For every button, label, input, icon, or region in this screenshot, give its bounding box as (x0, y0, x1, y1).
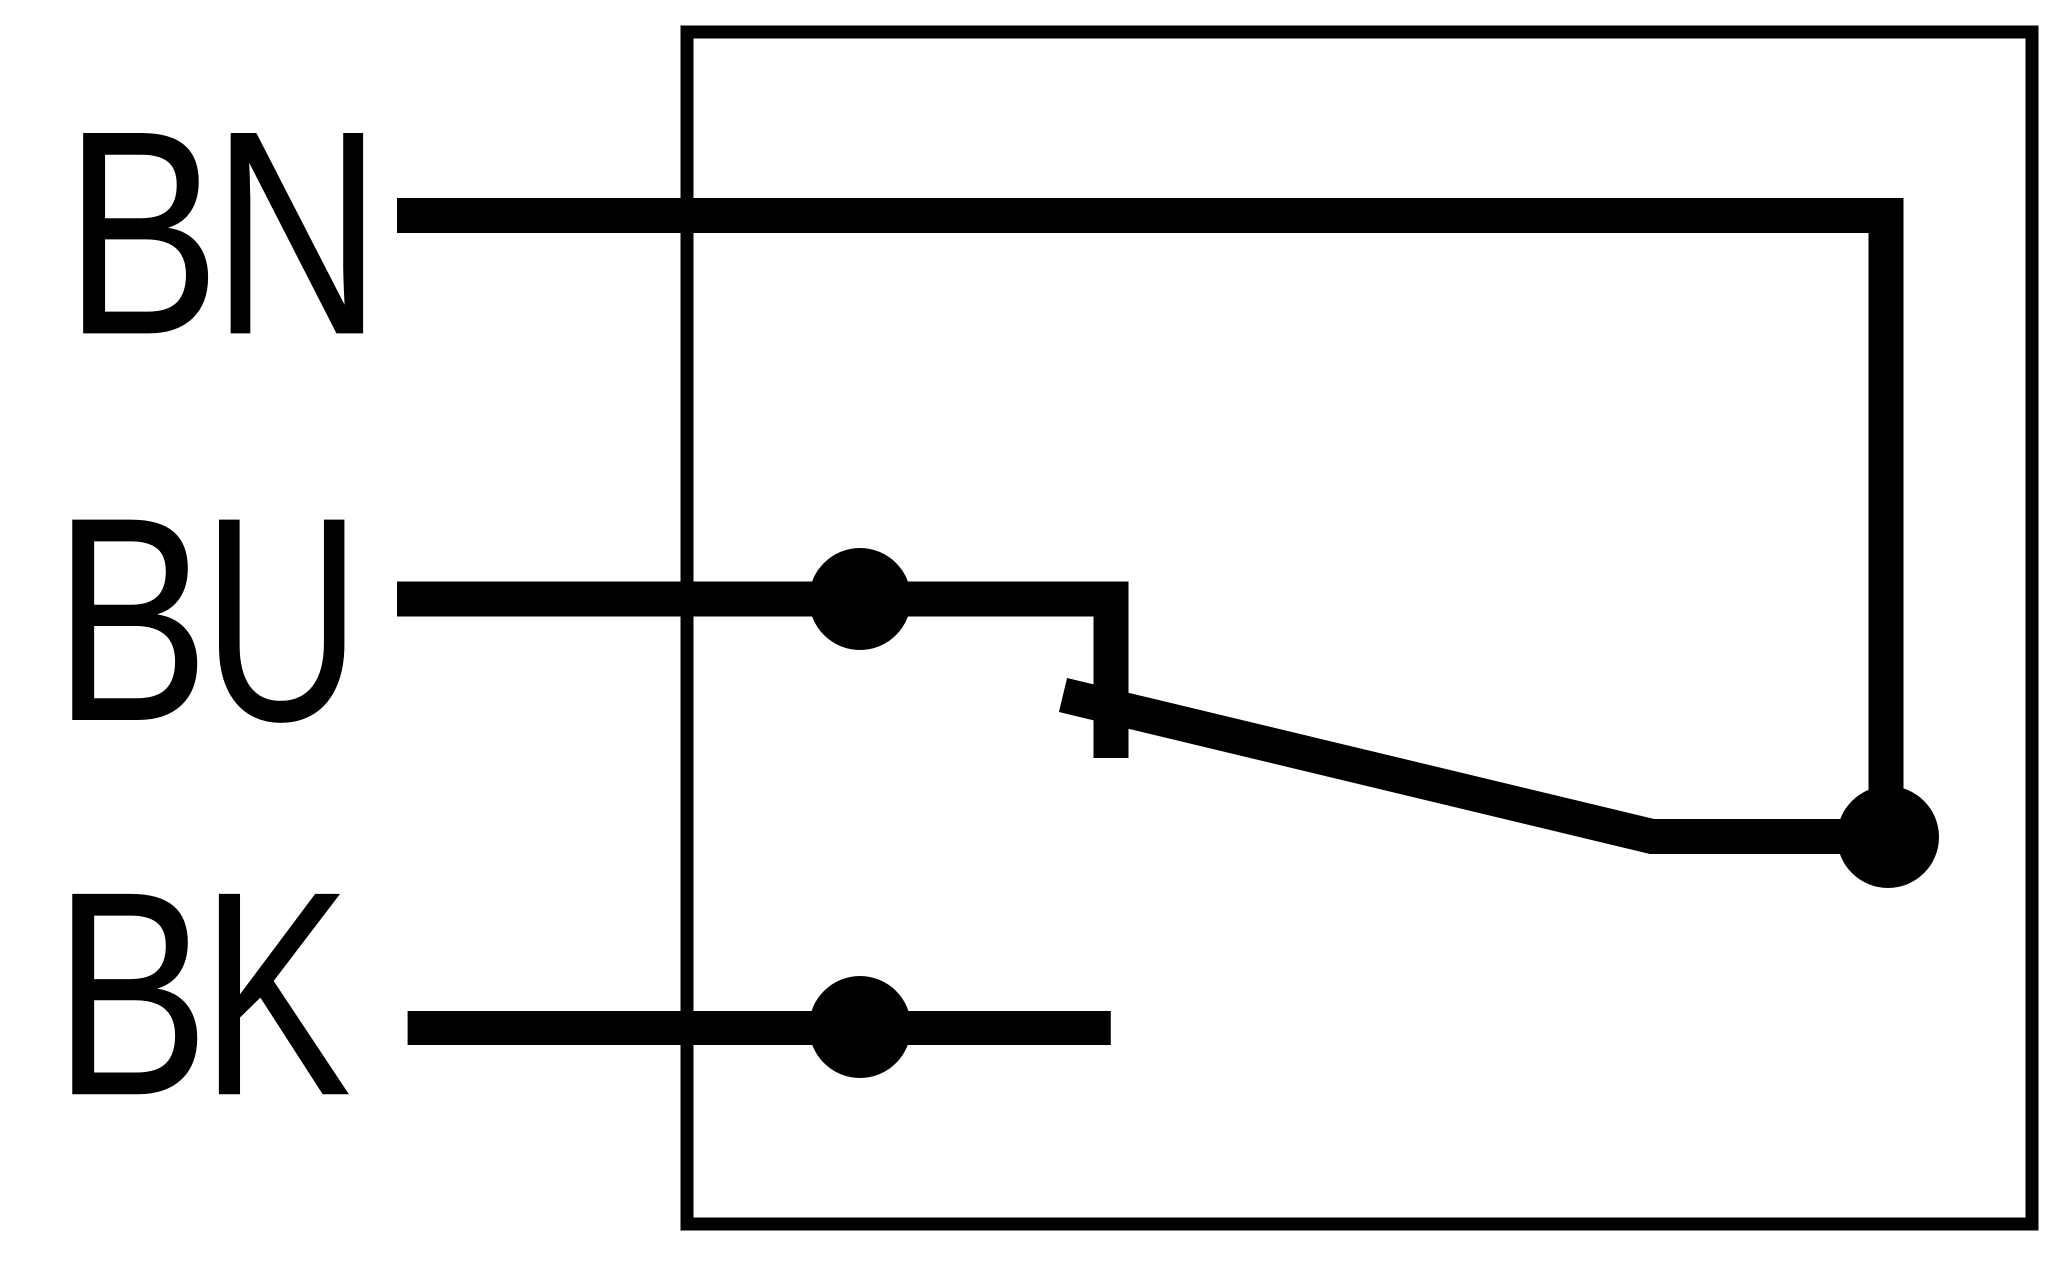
switch S1 moving arm (1063, 695, 1888, 837)
node BK label (53, 832, 351, 1157)
node BN label (64, 71, 383, 396)
junction dot BN/common contact (1837, 786, 1939, 888)
wire BN (brown lead to internal contact) (397, 216, 1886, 838)
svg-text:B: B (53, 458, 210, 783)
junction dot BU (809, 548, 911, 650)
node BU label (53, 456, 361, 782)
svg-text:N: N (211, 71, 382, 396)
svg-text:B: B (53, 832, 210, 1157)
wire BK (black lead, open contact) (408, 1011, 1111, 1045)
svg-text:U: U (202, 456, 361, 782)
junction dot BK (809, 976, 911, 1078)
svg-text:K: K (200, 832, 351, 1157)
component box (switch enclosure outline) (687, 32, 2032, 1224)
wire BU (blue lead to fixed contact) (397, 599, 1111, 758)
svg-text:B: B (64, 71, 221, 396)
